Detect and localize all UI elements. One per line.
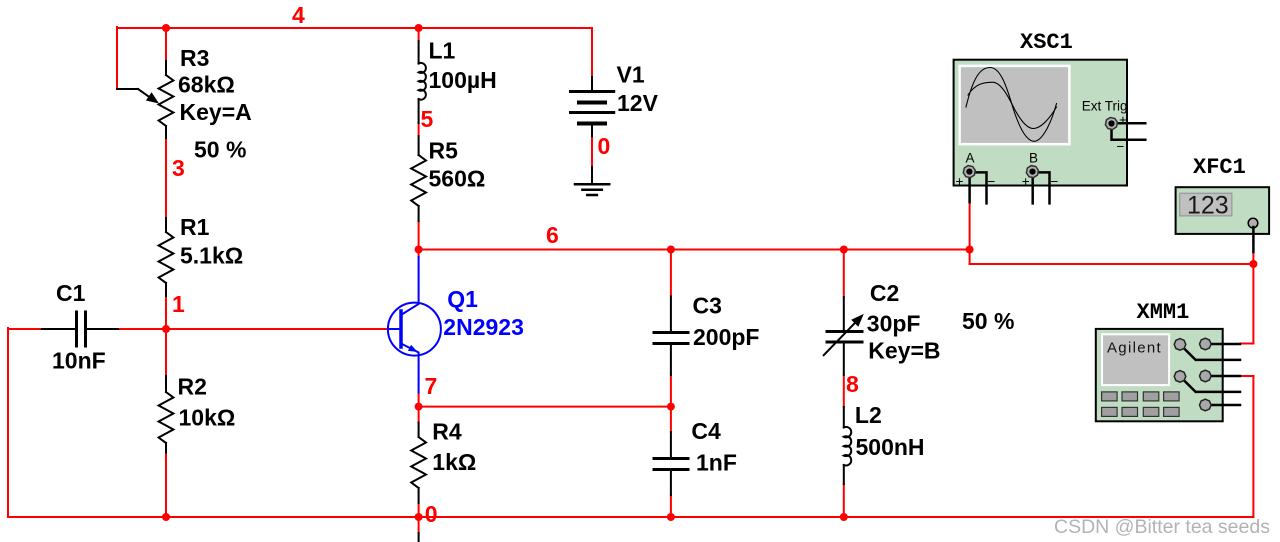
svg-text:5.1kΩ: 5.1kΩ (180, 243, 243, 269)
capacitor C2 plates (827, 332, 862, 343)
svg-text:R1: R1 (180, 214, 210, 240)
svg-text:123: 123 (1187, 192, 1229, 220)
wire R3 top segment (165, 28, 167, 61)
svg-text:3: 3 (172, 155, 185, 181)
wire R2 leads (165, 376, 167, 453)
wire node 6 rail (419, 249, 970, 251)
wire top rail node 4 (117, 27, 592, 29)
svg-text:R2: R2 (178, 374, 207, 400)
svg-text:560Ω: 560Ω (429, 166, 486, 192)
multimeter button row1 col4 (1164, 392, 1180, 401)
wire C1 leads (42, 328, 118, 330)
transistor Q1 circle (388, 303, 441, 356)
wire R3 leads (165, 61, 167, 138)
svg-text:−: − (1117, 139, 1125, 154)
junction node 7 right (667, 403, 675, 411)
battery V1 short plates (579, 103, 605, 124)
wire L2 leads (843, 407, 845, 484)
oscilloscope hook wire B (1039, 172, 1050, 203)
svg-text:50 %: 50 % (962, 308, 1014, 334)
wire V1 stubs (591, 77, 593, 183)
oscilloscope XSC1 body (954, 60, 1127, 186)
svg-text:XSC1: XSC1 (1020, 30, 1073, 55)
svg-text:6: 6 (546, 222, 559, 248)
resistor R1 body (159, 232, 174, 283)
oscilloscope XSC1 screen (960, 66, 1070, 144)
multimeter terminal T2 (1200, 338, 1212, 350)
wire R5 leads (418, 136, 420, 221)
wire XMM T4 down to ground rail (1252, 376, 1254, 517)
svg-text:Agilent: Agilent (1107, 340, 1162, 357)
multimeter terminal T3 (1174, 371, 1186, 383)
wire XFC column down to XMM T2 (1252, 252, 1254, 344)
capacitor C4 plates (654, 459, 688, 470)
capacitor C3 plates (654, 333, 688, 344)
oscilloscope terminal B (1025, 164, 1041, 180)
svg-text:C3: C3 (693, 293, 722, 319)
svg-text:1nF: 1nF (696, 450, 737, 476)
capacitor C2 arrowhead (851, 314, 864, 327)
multimeter terminal T5 (1200, 399, 1212, 411)
capacitor C2 arrow shaft (824, 320, 858, 355)
wire base node 1 horizontal (166, 328, 388, 330)
svg-text:200pF: 200pF (693, 324, 759, 350)
junction node 6 at C2 (840, 246, 848, 254)
svg-text:−: − (1051, 174, 1059, 189)
junction node 7 left (415, 403, 423, 411)
svg-text:C1: C1 (56, 280, 86, 306)
transistor Q1 collector (401, 257, 419, 315)
battery V1 long plates (571, 92, 614, 113)
svg-text:8: 8 (846, 371, 859, 397)
svg-text:L1: L1 (429, 38, 456, 64)
svg-text:+: + (1119, 113, 1127, 128)
svg-text:0: 0 (425, 501, 438, 527)
junction node 0 at C4 (667, 513, 675, 521)
oscilloscope terminal A (961, 164, 977, 180)
svg-text:C4: C4 (691, 418, 721, 444)
wire L1 leads (418, 41, 420, 123)
wire C4 top segment (670, 407, 672, 432)
resistor R4 body (411, 437, 426, 488)
svg-text:7: 7 (425, 373, 438, 399)
wire node 7 rail (419, 406, 671, 408)
svg-text:500nH: 500nH (856, 434, 925, 460)
wire left edge vertical (7, 328, 9, 517)
wire C1 left segment (8, 328, 42, 330)
potentiometer R3 body (159, 75, 174, 126)
svg-text:V1: V1 (617, 62, 645, 88)
junction node 0 at L2 (840, 513, 848, 521)
wire emitter node 7 segment (418, 392, 420, 422)
svg-text:Key=A: Key=A (180, 99, 252, 125)
wire pot wiper drop (116, 27, 118, 89)
junction node 6 at collector (415, 246, 423, 254)
wire C4 leads (670, 432, 672, 495)
svg-text:+: + (1022, 174, 1030, 189)
svg-text:2N2923: 2N2923 (443, 314, 524, 340)
svg-text:1kΩ: 1kΩ (432, 449, 476, 475)
wire into XMM T2 (1240, 343, 1253, 345)
oscilloscope terminal Ext Trig (1104, 116, 1120, 132)
oscilloscope probe stub A black (968, 179, 971, 202)
wire node 1 upper segment (165, 296, 167, 329)
multimeter XMM1 display (1102, 334, 1169, 385)
frequency counter XFC1 display (1180, 193, 1232, 216)
svg-text:10kΩ: 10kΩ (179, 405, 236, 431)
multimeter button row2 col1 (1102, 407, 1118, 416)
multimeter XMM1 body (1096, 329, 1223, 421)
svg-text:10nF: 10nF (52, 348, 106, 374)
transistor Q1 base lead (388, 328, 400, 330)
wire C3 top segment (670, 250, 672, 297)
wire R4 leads (418, 423, 420, 504)
wire V1 mid segment (591, 136, 593, 167)
capacitor C1 plates (77, 312, 86, 346)
resistor R2 body (159, 392, 174, 443)
frequency counter XFC1 wire (1252, 227, 1255, 252)
wire ground stub cut at edge (418, 533, 420, 542)
wire C4 bottom segment (670, 495, 672, 517)
wire R2 bottom segment (165, 452, 167, 517)
multimeter wire T5 (1205, 404, 1240, 407)
junction node 1 (162, 325, 170, 333)
svg-text:12V: 12V (617, 90, 659, 116)
wire R5 bottom segment (418, 221, 420, 249)
svg-text:0: 0 (598, 133, 611, 159)
svg-text:R5: R5 (429, 138, 459, 164)
svg-text:+: + (956, 174, 964, 189)
wire node 8 segment (843, 375, 845, 407)
oscilloscope ext trig wire upper (1118, 122, 1145, 125)
svg-text:R3: R3 (180, 45, 209, 71)
wire C3 leads (670, 297, 672, 376)
junction node 4 at L1 (415, 24, 423, 32)
svg-text:CSDN @Bitter tea seeds: CSDN @Bitter tea seeds (1054, 516, 1270, 538)
wire C2 top segment (843, 250, 845, 298)
wire bottom rail node 0 (8, 516, 1253, 518)
svg-text:R4: R4 (432, 419, 462, 445)
multimeter wire T2 (1205, 343, 1240, 346)
multimeter button row1 col2 (1122, 392, 1138, 401)
svg-text:Ext Trig: Ext Trig (1082, 99, 1128, 114)
wire node 5 segment (418, 123, 420, 136)
svg-text:100µH: 100µH (429, 67, 497, 93)
oscilloscope hook wire A (976, 172, 987, 203)
oscilloscope trace wave 2 (968, 82, 1057, 128)
wire ground stub below rail (418, 517, 420, 533)
multimeter button row2 col2 (1122, 407, 1138, 416)
svg-text:5: 5 (421, 106, 434, 132)
multimeter wire T1 (1180, 344, 1240, 360)
svg-text:4: 4 (292, 2, 305, 28)
oscilloscope ext trig wire lower (1112, 130, 1146, 140)
junction node 0 at R4 (415, 513, 423, 521)
wire C3 bottom segment (670, 375, 672, 407)
frequency counter XFC1 body (1176, 187, 1270, 234)
oscilloscope trace wave 1 (966, 68, 1057, 142)
wire R4 bottom segment (418, 503, 420, 517)
multimeter button row2 col3 (1143, 407, 1159, 416)
frequency counter XFC1 terminal (1248, 218, 1258, 228)
svg-text:Q1: Q1 (447, 286, 478, 312)
wire C1 right segment (118, 328, 166, 330)
transistor Q1 emitter (401, 344, 419, 393)
wire C2 leads (843, 297, 845, 375)
wire scope A drop (969, 202, 971, 264)
svg-text:A: A (966, 151, 975, 166)
junction node 4 at R3 (162, 24, 170, 32)
svg-text:1: 1 (172, 291, 185, 317)
junction node 6 at scope A (966, 246, 974, 254)
svg-text:L2: L2 (855, 402, 882, 428)
wire XMM T4 out (1240, 375, 1253, 377)
svg-text:XMM1: XMM1 (1137, 300, 1190, 325)
svg-text:B: B (1029, 151, 1038, 166)
wire node 3 segment (165, 138, 167, 218)
wire V1 top drop (591, 28, 593, 77)
wire jog to XFC column (970, 263, 1254, 265)
transistor Q1 base bar (399, 311, 403, 347)
wire R1 leads (165, 218, 167, 296)
wire node 1 lower segment (165, 329, 167, 376)
multimeter wire T4 (1205, 375, 1240, 378)
potentiometer R3 wiper arrow shaft (138, 89, 150, 98)
oscilloscope probe stub B (1031, 179, 1034, 203)
multimeter button row1 col3 (1143, 392, 1159, 401)
svg-text:68kΩ: 68kΩ (178, 72, 235, 98)
inductor L2 coil (844, 427, 851, 466)
svg-text:C2: C2 (870, 280, 899, 306)
multimeter button row2 col4 (1164, 407, 1180, 416)
svg-text:XFC1: XFC1 (1193, 155, 1246, 180)
multimeter terminal T1 (1174, 339, 1186, 351)
wire L1 top segment (418, 28, 420, 41)
transistor Q1 emitter arrowhead (408, 345, 418, 352)
inductor L1 coil (419, 63, 426, 100)
ground symbol V1 (575, 184, 609, 195)
svg-text:30pF: 30pF (867, 311, 921, 337)
potentiometer R3 wiper arrowhead (146, 92, 159, 103)
resistor R5 body (411, 155, 426, 206)
wire collector segment (418, 250, 420, 258)
wire pot wiper horizontal (117, 88, 138, 90)
wire L2 bottom segment (843, 484, 845, 517)
junction node 0 at R2 (162, 513, 170, 521)
multimeter button row1 col1 (1102, 392, 1118, 401)
multimeter wire T3 (1180, 376, 1240, 392)
multimeter terminal T4 (1200, 370, 1212, 382)
svg-text:Key=B: Key=B (868, 338, 940, 364)
svg-text:50 %: 50 % (194, 137, 246, 163)
junction node 6 at C3 (667, 246, 675, 254)
junction at XFC1 wire (1249, 260, 1257, 268)
svg-text:−: − (988, 174, 996, 189)
